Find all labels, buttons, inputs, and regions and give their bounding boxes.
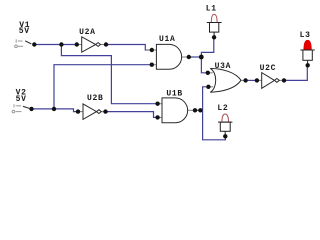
svg-text:U2A: U2A (79, 28, 96, 37)
svg-text:L3: L3 (300, 31, 311, 40)
svg-text:5V: 5V (19, 27, 30, 36)
svg-text:U3A: U3A (215, 62, 232, 71)
svg-text:U2C: U2C (260, 64, 277, 73)
svg-text:L1: L1 (206, 4, 217, 13)
svg-text:U1A: U1A (159, 35, 176, 44)
svg-text:5V: 5V (16, 95, 27, 104)
svg-text:L2: L2 (217, 104, 228, 113)
svg-text:U1B: U1B (166, 89, 183, 98)
svg-text:U2B: U2B (87, 94, 104, 103)
